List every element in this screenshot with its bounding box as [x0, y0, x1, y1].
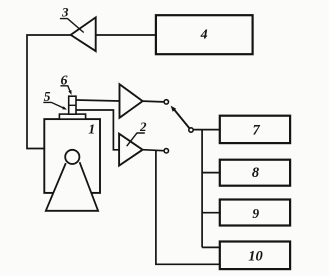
svg-text:4: 4 — [200, 28, 208, 43]
svg-text:1: 1 — [88, 122, 95, 137]
svg-text:7: 7 — [252, 123, 260, 139]
svg-text:10: 10 — [248, 249, 263, 265]
svg-text:9: 9 — [252, 206, 259, 221]
svg-text:2: 2 — [139, 119, 147, 134]
svg-text:5: 5 — [44, 89, 51, 104]
svg-text:8: 8 — [252, 165, 260, 181]
svg-text:3: 3 — [61, 4, 69, 19]
svg-text:6: 6 — [61, 74, 68, 89]
